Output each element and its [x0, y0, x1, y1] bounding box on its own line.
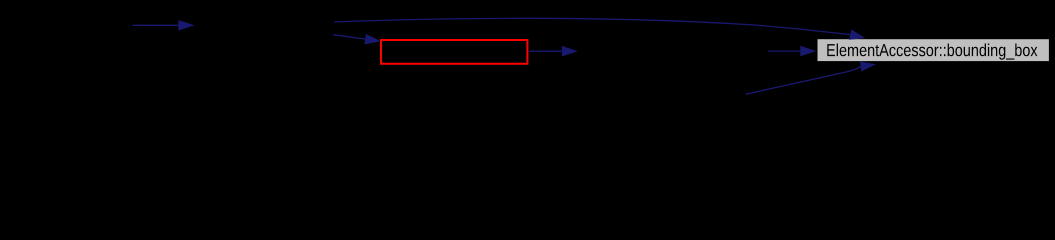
edge: current node -> callee node — [529, 46, 578, 57]
node: ElementAccessor::bounding_box (grey box) — [818, 39, 1049, 61]
current node (red outline, label invisible on black) — [381, 40, 527, 64]
label: ElementAccessor::bounding_box — [827, 44, 1037, 60]
edge: callee node -> ElementAccessor::bounding_box — [768, 46, 817, 57]
edge: caller1 -> caller2 (leftmost arrow) — [133, 20, 195, 31]
edge: caller2 -> current node — [333, 34, 381, 45]
edge: caller2 -> ElementAccessor::bounding_box (long top arc) — [334, 18, 865, 40]
edge: lower caller -> ElementAccessor::bounding_box (from below) — [746, 62, 876, 95]
